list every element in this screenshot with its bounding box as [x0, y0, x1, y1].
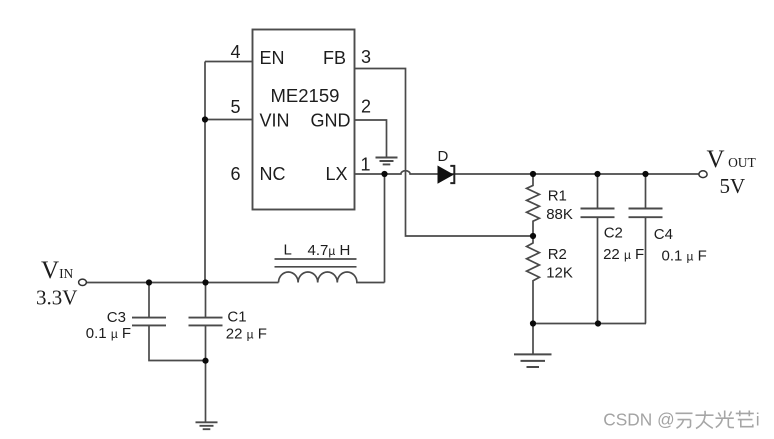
svg-text:VIN: VIN: [260, 111, 290, 131]
wire ground stem: [532, 324, 534, 355]
svg-text:i: i: [756, 410, 760, 430]
ground under C1: [196, 422, 218, 429]
node junction LX/inductor: [381, 171, 387, 177]
glyph guang: [716, 411, 735, 428]
watermark chinese glyphs drawn as strokes: [676, 411, 754, 429]
node junction R2 bottom: [530, 320, 536, 326]
resistor R1: [527, 174, 540, 236]
node junction VIN pin: [202, 116, 208, 122]
svg-text:CSDN @: CSDN @: [603, 410, 674, 430]
svg-text:FB: FB: [323, 48, 346, 68]
node junction C2 top: [594, 171, 600, 177]
svg-text:D: D: [438, 148, 449, 165]
node junction C3/C1 bottom: [202, 358, 208, 364]
resistor R2: [527, 236, 540, 324]
capacitor C1 bottom lead to ground: [205, 326, 207, 422]
node junction C1 top: [202, 279, 208, 285]
wire input rail from VIN terminal: [87, 282, 279, 284]
node junction C4 top: [642, 171, 648, 177]
capacitor C2 top lead: [597, 174, 599, 208]
capacitor C1 top lead: [205, 283, 207, 318]
capacitor C3 top lead: [148, 283, 150, 318]
svg-text:NC: NC: [260, 164, 286, 184]
diode D cathode bracket: [450, 166, 454, 183]
svg-text:R1: R1: [548, 187, 567, 204]
svg-text:C2: C2: [604, 224, 623, 241]
wire LX node down to inductor: [384, 174, 386, 283]
node input terminal circle: [79, 279, 87, 285]
svg-text:3.3V: 3.3V: [36, 286, 77, 310]
svg-text:4: 4: [230, 42, 240, 62]
capacitor C1 plates: [189, 318, 223, 326]
svg-text:0.1 µ F: 0.1 µ F: [86, 325, 131, 342]
svg-text:2: 2: [361, 97, 371, 117]
svg-text:C1: C1: [227, 309, 246, 326]
wire GND pin2 to ground: [355, 120, 387, 157]
node output terminal circle: [699, 171, 707, 178]
svg-text:12K: 12K: [546, 264, 573, 281]
svg-text:C4: C4: [654, 226, 673, 243]
wire EN pin4 horizontal: [205, 61, 253, 63]
svg-text:L: L: [284, 242, 292, 259]
node junction R1 top: [530, 171, 536, 177]
svg-text:5V: 5V: [720, 174, 746, 198]
svg-text:ME2159: ME2159: [271, 85, 340, 106]
capacitor C4 top lead: [645, 174, 647, 208]
node junction R1/R2 FB: [530, 233, 536, 239]
capacitor C4 bottom lead: [645, 218, 647, 324]
wire output ground rail: [533, 323, 646, 325]
capacitor C2 plates: [581, 209, 615, 218]
svg-text:22 µ F: 22 µ F: [226, 326, 267, 343]
op-amp U1 ME2159 IC body: [253, 30, 355, 210]
node junction C2 bottom: [595, 320, 601, 326]
svg-text:3: 3: [361, 47, 371, 67]
glyph wan: [676, 413, 693, 428]
svg-text:1: 1: [361, 155, 371, 175]
ground under GND pin: [376, 158, 398, 165]
glyph mang: [736, 411, 754, 427]
capacitor C3 plates: [132, 318, 166, 326]
svg-text:88K: 88K: [546, 206, 573, 223]
svg-text:EN: EN: [260, 48, 285, 68]
svg-text:6: 6: [230, 164, 240, 184]
inductor L coil: [279, 272, 385, 283]
wire VIN pin5 horizontal: [205, 119, 253, 121]
capacitor C3 bottom lead: [149, 326, 206, 361]
wire FB pin3 net to feedback divider: [355, 69, 534, 237]
svg-text:LX: LX: [326, 164, 348, 184]
inductor L core lines: [275, 259, 357, 267]
svg-text:5: 5: [230, 97, 240, 117]
capacitor C4 plates: [629, 209, 663, 218]
svg-text:C3: C3: [107, 309, 126, 326]
wire left vertical EN/VIN to input rail: [204, 62, 206, 283]
wire LX pin1 output line with hop over FB wire: [355, 171, 699, 174]
capacitor C2 bottom lead: [597, 218, 599, 324]
svg-text:4.7µ H: 4.7µ H: [308, 242, 351, 259]
glyph zhang: [696, 411, 714, 429]
svg-text:22 µ F: 22 µ F: [603, 246, 644, 263]
svg-text:GND: GND: [311, 111, 351, 131]
svg-text:R2: R2: [548, 246, 567, 263]
ground output section: [514, 354, 552, 367]
diode D body: [438, 166, 453, 183]
node junction C3 top: [146, 279, 152, 285]
svg-text:0.1 µ F: 0.1 µ F: [662, 247, 707, 264]
